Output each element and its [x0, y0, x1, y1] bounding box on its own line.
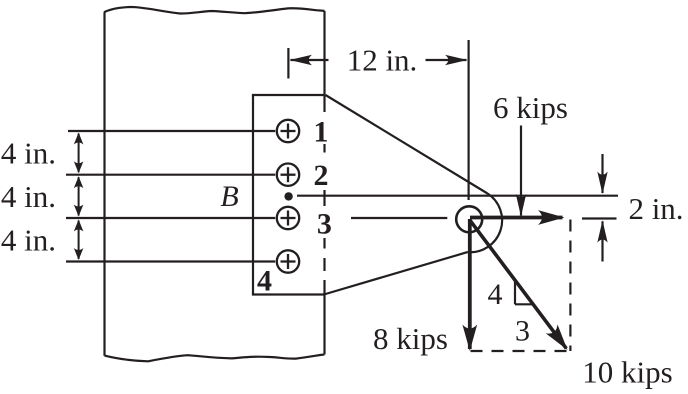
8 kips vertical force arrow — [468, 219, 472, 349]
svg-text:1: 1 — [314, 116, 329, 149]
svg-text:8 kips: 8 kips — [373, 321, 448, 356]
extension line bolt row 1 — [68, 130, 275, 132]
extension line bolt row 4 — [66, 260, 275, 262]
gusset lower diagonal — [324, 252, 468, 294]
2 in. lower arrow — [601, 221, 603, 261]
12 in. dimension right arrow — [426, 59, 467, 61]
2 in. upper arrow — [601, 154, 603, 193]
2 in. lower reference line — [582, 217, 617, 219]
svg-text:2: 2 — [314, 159, 329, 192]
10 kips diagonal force arrow — [469, 219, 566, 348]
svg-text:4 in.: 4 in. — [1, 136, 56, 171]
column top break (wavy) edge — [104, 7, 325, 14]
gusset upper diagonal — [326, 95, 488, 194]
svg-text:3: 3 — [515, 315, 530, 348]
gusset rounded lobe arc — [468, 194, 503, 253]
extension line bolt row 3 — [66, 217, 275, 219]
pin hole circle — [456, 206, 482, 232]
bracket plate top edge — [252, 94, 326, 96]
column left edge — [103, 12, 105, 356]
svg-text:4 in.: 4 in. — [1, 223, 56, 258]
pin centerline stub — [351, 217, 447, 219]
bracket hidden right edge (dashed) — [323, 95, 325, 295]
bracket plate bottom edge — [252, 293, 325, 295]
dimension arrow 4in (rows 1-2) — [78, 134, 80, 173]
dashed construction line vertical (right) — [569, 220, 571, 352]
node B dot (bolt-group centroid) — [284, 192, 292, 200]
slope triangle horizontal leg — [515, 303, 533, 305]
svg-text:6 kips: 6 kips — [493, 90, 568, 125]
bolt 4 — [277, 250, 299, 272]
bolt 3 — [277, 207, 299, 229]
dimension arrow 4in (rows 3-4) — [78, 221, 80, 260]
bolt 1 — [277, 120, 299, 142]
svg-text:4: 4 — [257, 265, 272, 298]
svg-text:B: B — [220, 180, 238, 213]
dimension arrow 4in (rows 2-3) — [78, 177, 80, 215]
slope triangle vertical leg — [514, 281, 516, 305]
svg-text:12 in.: 12 in. — [347, 43, 418, 78]
svg-text:3: 3 — [317, 208, 332, 241]
12 in. dimension left tick — [287, 48, 289, 79]
6 kips horizontal force arrow — [470, 216, 563, 220]
dashed construction line horizontal (bottom) — [471, 350, 572, 352]
extension line bolt row 2 — [66, 174, 275, 176]
bolt 2 — [277, 164, 299, 186]
6 kips leader arrow — [520, 126, 522, 216]
12 in. dimension left arrow — [291, 59, 329, 61]
svg-text:10 kips: 10 kips — [582, 355, 672, 390]
column bottom break (wavy) edge — [105, 355, 325, 362]
horizontal reference line through B (top of 2 in.) — [297, 195, 618, 197]
svg-text:4 in.: 4 in. — [1, 179, 56, 214]
svg-text:4: 4 — [488, 278, 503, 311]
12 in. right extension line (to pin) — [468, 40, 470, 200]
bracket plate left edge — [252, 95, 254, 295]
column right edge upper segment — [323, 11, 325, 95]
svg-text:2 in.: 2 in. — [628, 191, 683, 226]
column right edge lower segment — [323, 295, 325, 355]
